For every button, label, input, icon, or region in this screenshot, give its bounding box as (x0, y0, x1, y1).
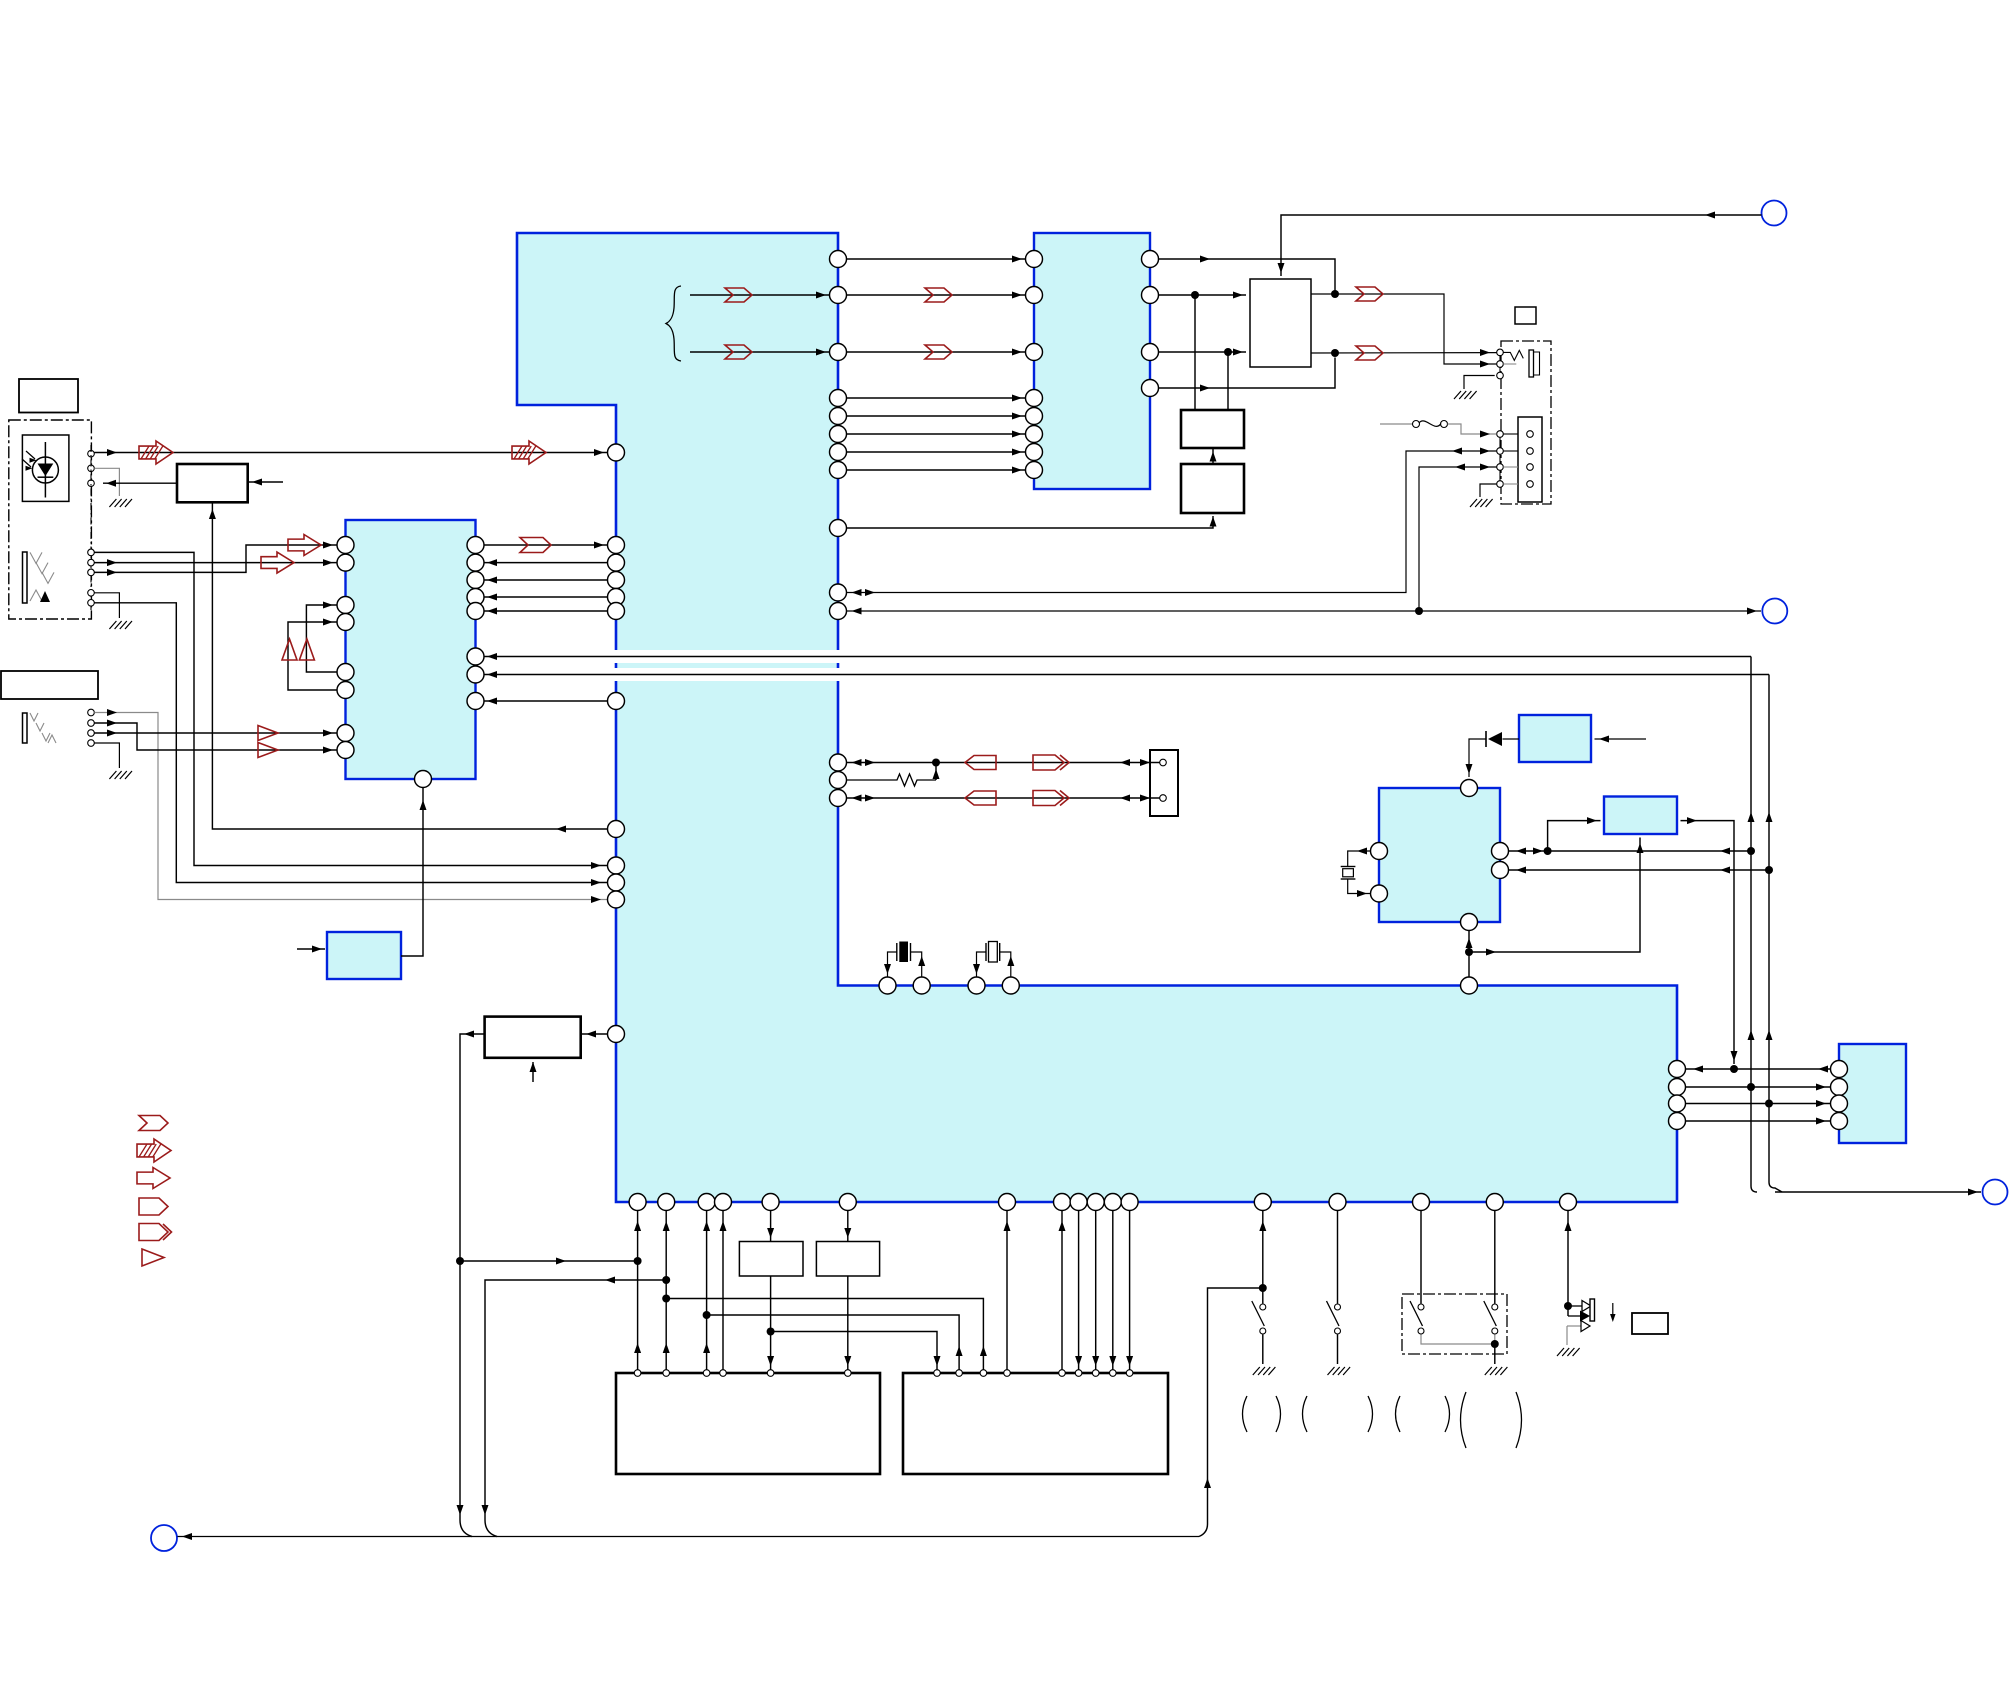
jack JK1 pin 5 (88, 600, 95, 607)
pin U2-R4 (1142, 380, 1159, 397)
connector CN2 outer pin 3 (1497, 464, 1504, 471)
box label L1 (19, 379, 78, 413)
pin U1-B14 (1329, 1194, 1346, 1211)
wire A5 bottom stub (532, 1062, 534, 1082)
junction reg feed 2 (1224, 348, 1232, 356)
pin U1-L10 (608, 874, 625, 891)
wire U2-R4 to mux out2 (1159, 358, 1336, 389)
jack JK1 contacts (30, 552, 42, 563)
junction U4R1/U6 (1544, 847, 1552, 855)
jack JK2 pin 1 (88, 709, 95, 716)
pin DSP2-8 (1110, 1370, 1117, 1377)
wire JK2-4 to ground (94, 743, 119, 768)
LED DL1 cathode bar (1590, 1299, 1595, 1321)
wire bus U3-R7 long (crosses U1) (484, 674, 1769, 676)
junction v1-reset (634, 1257, 642, 1265)
wire U5 input stub (1595, 738, 1647, 740)
pin U3-L6 (337, 682, 354, 699)
legend arrow pentagon chevron (139, 1224, 168, 1241)
pin DSP1-5 (767, 1370, 774, 1377)
pin U1-B5 (762, 1194, 779, 1211)
wire node J1 to mux select (1281, 215, 1762, 276)
battery parentheses pair 2 (1303, 1396, 1308, 1432)
pin U2-L3 (1026, 344, 1043, 361)
wire SW common to ground (1494, 1344, 1496, 1364)
brace left of U2 wires (666, 286, 681, 361)
pin U1-E2 (1669, 1079, 1686, 1096)
wire U1 to U2 row2 (847, 294, 1026, 296)
wire preamp input stub (248, 481, 283, 483)
pin U2-L6 (1026, 426, 1043, 443)
wire U1 to U2 data y434 (847, 433, 1026, 435)
pin U1-L11 (608, 891, 625, 908)
switch SW3 contact b (1418, 1328, 1424, 1334)
wire bus U3-R6 long (crosses U1) (484, 656, 1751, 658)
wire U1 to U3 sck (484, 610, 608, 612)
wire U2-R1 to mux out1 (1159, 259, 1336, 291)
wire U4-R1 net (1509, 850, 1752, 852)
pin U1-B4 (715, 1194, 732, 1211)
wire v9 U1-B9 to DSP2 (1078, 1211, 1080, 1370)
pin U1-T3 (968, 977, 985, 994)
pin U4 top (1461, 780, 1478, 797)
pin U3-R6 (467, 648, 484, 665)
pin DSP2-3 (980, 1370, 987, 1377)
ground SW2 (1328, 1367, 1351, 1375)
junction CN2-3 / J2 (1415, 607, 1423, 615)
pin U1-L12 (608, 1026, 625, 1043)
pin DSP1-1 (634, 1370, 641, 1377)
pin U1-B13 (1254, 1194, 1271, 1211)
box display DSP1 (616, 1373, 880, 1474)
remote sensor body (22, 435, 69, 501)
battery parentheses pair 4 (1461, 1392, 1467, 1448)
wire U1 to U2 row3 (847, 351, 1026, 353)
pin U1-L4 (608, 572, 625, 589)
wire CN2 pin3 to U1 and J2 (847, 467, 1497, 611)
pin U4-R1 (1492, 843, 1509, 860)
pin U3-R7 (467, 666, 484, 683)
pin U2-L7 (1026, 444, 1043, 461)
wire power rail 1 (1686, 1068, 1831, 1070)
jack JK3 column line b (1499, 437, 1501, 448)
wire bottom rail to J4 (178, 1536, 1200, 1538)
wire v1 U1-B1 to DSP1 (637, 1211, 639, 1370)
signal arrow loop triangle 2 (299, 639, 314, 660)
signal arrow chevron headphone L (1356, 346, 1383, 360)
pin U1-R12 (830, 754, 847, 771)
junction bus1-U4 (1747, 847, 1755, 855)
pin U1-R1 (830, 251, 847, 268)
jack JK3 pin 2 (1497, 361, 1504, 368)
legend arrow chevron (139, 1116, 168, 1131)
signal arrow line-in R (261, 552, 294, 573)
switch SW1 contact a (1260, 1304, 1266, 1310)
wire U1 to reg A4 (847, 516, 1214, 528)
jack JK1 tip marker (40, 591, 50, 602)
pin U1-R2 (830, 287, 847, 304)
pin U2-R3 (1142, 344, 1159, 361)
crystal X2 (977, 952, 987, 977)
wire JK1-4 to ground (94, 593, 119, 618)
pin DSP2-2 (956, 1370, 963, 1377)
wire U5 out via diode to U4 (1469, 739, 1486, 777)
wire JK1-5 to U1 (94, 603, 607, 883)
ground sensor (109, 499, 132, 507)
wire power rail 2 (1686, 1086, 1831, 1088)
sensor pin 2 (88, 465, 95, 472)
pin U1-B1 (629, 1194, 646, 1211)
switch SW3 contact a (1418, 1304, 1424, 1310)
pin U1-B7 (999, 1194, 1016, 1211)
wire A6 out down (770, 1276, 772, 1370)
IC U3 audio codec (cyan block left) (346, 520, 476, 779)
wire CN2 pin4 to ground (1480, 484, 1497, 497)
jack JK1 pin 1 (88, 549, 95, 556)
pin U3-R5 (467, 603, 484, 620)
signal arrow loop triangle 1 (282, 639, 297, 660)
junction bus2-pwr (1765, 1100, 1773, 1108)
signal arrow line-in L (288, 535, 321, 556)
wire JK1-2 to U3 in-R (94, 562, 336, 564)
switch block outline (dash-dot) (1402, 1294, 1507, 1354)
signal arrow key1 left pent (965, 756, 996, 770)
node J1 (blue circle top right) (1762, 201, 1787, 226)
pin U3-L1 (337, 537, 354, 554)
LED current arrow (1612, 1303, 1614, 1320)
ground JK1 (109, 621, 132, 629)
box driver A6 (739, 1242, 803, 1277)
IC U6 regulator (small cyan box) (1604, 797, 1677, 835)
pin U3-B1 (415, 771, 432, 788)
pin U1-B6 (839, 1194, 856, 1211)
box reset A5 (485, 1017, 581, 1058)
signal arrow (hatched) remote data 1 (139, 441, 173, 464)
wire U2-R3 to mux in2 (1159, 351, 1247, 353)
switch SW2 lever (1327, 1301, 1340, 1326)
wire v11 U1-B11 to DSP2 (1112, 1211, 1114, 1370)
pin U1-R5 (830, 408, 847, 425)
pin U1-L9 (608, 857, 625, 874)
wire line d to DSP2 (707, 1315, 960, 1370)
legend arrow open (137, 1168, 170, 1189)
diode D2 (1503, 738, 1520, 740)
wire reset to v1 (460, 1260, 638, 1262)
pin U1-R13 (830, 772, 847, 789)
wire JK1-1 to U1 (detect) (94, 552, 607, 865)
box mux A2 (1250, 279, 1311, 367)
jack JK1 pin 2 (88, 559, 95, 566)
wire feedback y1280 (485, 1280, 666, 1537)
wire power rail 3 (1686, 1103, 1831, 1105)
legend arrow pentagon (139, 1198, 168, 1215)
pin U2-L5 (1026, 408, 1043, 425)
jack JK2 pin 4 (88, 740, 95, 747)
wire junction up to U6 in (1548, 821, 1601, 851)
junction mux out2 (1331, 349, 1339, 357)
pin U3-L3 (337, 597, 354, 614)
connector CN3 pin 1 (1160, 759, 1167, 766)
node J3 (blue circle bottom right) (1983, 1180, 2008, 1205)
pin U1-B11 (1104, 1194, 1121, 1211)
pin U4-L2 (1371, 885, 1388, 902)
switch SW4 contact b (1492, 1328, 1498, 1334)
pin U1-T5 (1461, 977, 1478, 994)
pin U3-L2 (337, 554, 354, 571)
node J2 (blue circle middle right) (1762, 599, 1787, 624)
wire U1 to U2 data y398 (847, 397, 1026, 399)
wire U1-B14 to SW2 (1337, 1211, 1339, 1304)
wire mux out2 to jack (1311, 352, 1497, 354)
photodiode D1 (32, 457, 58, 483)
pin U1-E3 (1669, 1095, 1686, 1112)
wire v10 U1-B10 to DSP2 (1095, 1211, 1097, 1370)
jack JK3 sleeve bar (1529, 350, 1534, 377)
IC U8 reset IC (small cyan box) (327, 932, 401, 979)
connector CN2 pin 2 (1527, 448, 1534, 455)
box driver A7 (816, 1242, 879, 1277)
connector CN2 pin 4 (1527, 481, 1534, 488)
switch SW3 lever (1410, 1301, 1423, 1326)
signal arrow chevron row2 b (925, 288, 952, 302)
wire JK2-1 to U1 (detect) (94, 713, 607, 900)
wire brace to U1 row2 (690, 294, 830, 296)
pin U3-R3 (467, 572, 484, 589)
pin U3-L8 (337, 742, 354, 759)
remote sensor enclosure (dash-dot outline) (9, 420, 92, 619)
wire sensor pin2 to ground (94, 468, 119, 496)
sensor pin 3 (88, 480, 95, 487)
pin U7-L1 (1831, 1061, 1848, 1078)
connector CN3 body (1150, 750, 1178, 816)
resistor R1 (847, 774, 937, 786)
junction U6-pwr (1730, 1065, 1738, 1073)
jack JK1 pin 4 (88, 590, 95, 597)
pin U1-L3 (608, 554, 625, 571)
wire U1 to preamp (control) (212, 502, 607, 829)
ground LED (1557, 1348, 1580, 1356)
box preamp A1 (177, 464, 248, 502)
jack JK3 contacts (1503, 350, 1523, 360)
junction bus2-U4 (1765, 866, 1773, 874)
fuse F1 (1380, 423, 1412, 425)
wire U1 to U2 data y470 (847, 469, 1026, 471)
wire U1 to U3 bck (484, 562, 608, 564)
connector CN2 body (1518, 417, 1542, 502)
pin DSP2-9 (1126, 1370, 1133, 1377)
pin U1-R9 (830, 520, 847, 537)
pin DSP2-6 (1075, 1370, 1082, 1377)
switch SW4 contact a (1492, 1304, 1498, 1310)
switch SW2 contact a (1335, 1304, 1341, 1310)
pin U1-L5 (608, 589, 625, 606)
wire U1 to U2 data y452 (847, 451, 1026, 453)
pin U1-R6 (830, 426, 847, 443)
pin U1-E4 (1669, 1113, 1686, 1130)
wire U1-B13 to SW1 (1262, 1211, 1264, 1304)
pin DSP1-3 (703, 1370, 710, 1377)
switch SW4 lever (1484, 1301, 1497, 1326)
wire reset A5 out (460, 1034, 485, 1537)
wire bus vertical right 1 (1751, 657, 1757, 1193)
wire U1 to U3 lrck (484, 579, 608, 581)
jack JK3 pin 1 (1497, 349, 1504, 356)
jack JK1 pin 3 (88, 569, 95, 576)
pin U1-B17 (1560, 1194, 1577, 1211)
wire v6 U1-B6 to driver A7 (847, 1211, 849, 1242)
wire brace to U1 row3 (690, 351, 830, 353)
pin U1-B2 (658, 1194, 675, 1211)
wire U3 to U1 audio data (484, 544, 608, 546)
junction SW common (1491, 1340, 1499, 1348)
node J4 (blue circle bottom left) (151, 1525, 177, 1551)
wire reg feed 2 vertical (1227, 352, 1229, 410)
switch SW1 contact b (1260, 1328, 1266, 1334)
jack JK2 pin 2 (88, 720, 95, 727)
signal arrow key1 right pent (1033, 755, 1064, 770)
connector CN2 pin 3 (1527, 464, 1534, 471)
signal arrow phones 1 (258, 726, 278, 741)
box label L3 (1515, 307, 1536, 324)
wire CN2 pin2 to U1 (847, 451, 1497, 593)
junction reg feed 1 (1191, 291, 1199, 299)
pin DSP1-2 (663, 1370, 670, 1377)
wire power rail 4 (1686, 1120, 1831, 1122)
jack JK2 contacts (30, 713, 38, 721)
pin DSP2-1 (934, 1370, 941, 1377)
pin U1-R8 (830, 462, 847, 479)
wire v4 U1-B4 to DSP1 (722, 1211, 724, 1370)
wire U4-R2 net (1509, 869, 1770, 871)
wire U4 bottom to U1 top pin (1468, 931, 1470, 978)
jack JK2 pin 3 (88, 730, 95, 737)
wire v5 U1-B5 to driver A6 (770, 1211, 772, 1242)
wire SW2 to ground (1337, 1335, 1339, 1365)
pin U3-L5 (337, 664, 354, 681)
wire U3 bottom from reset (401, 788, 423, 957)
wire reg A3 to A4 link (1212, 448, 1214, 464)
wire LED lower to ground (1567, 1325, 1581, 1327)
pin U1-B16 (1486, 1194, 1503, 1211)
wire v3 U1-B3 to DSP1 (706, 1211, 708, 1370)
junction v2-c (662, 1295, 670, 1303)
pin U1-B9 (1070, 1194, 1087, 1211)
legend arrow triangle (142, 1249, 164, 1266)
pin U4-R2 (1492, 862, 1509, 879)
connector CN2 outer pin 1 (1497, 431, 1504, 438)
pin U1-B12 (1121, 1194, 1138, 1211)
pin U7-L4 (1831, 1113, 1848, 1130)
signal arrow phones 2 (258, 743, 278, 758)
junction mux out1 (1331, 290, 1339, 298)
wire JK2-3 to U3 (94, 732, 336, 734)
sensor pin 1 (88, 450, 95, 457)
wire U1-B16 to SW4 (1494, 1211, 1496, 1304)
pin U1-E1 (1669, 1061, 1686, 1078)
pin U1-R14 (830, 790, 847, 807)
wire U1 to reset box A5 (581, 1033, 608, 1035)
pin DSP1-6 (845, 1370, 852, 1377)
op-amp U1 system-controller IC (large cyan block) (517, 233, 1677, 1202)
junction key row1 (932, 759, 940, 767)
box label L2 (1, 671, 98, 699)
junction LED (1564, 1302, 1572, 1310)
pin U7-L2 (1831, 1079, 1848, 1096)
wire JK2-2 to U3 (94, 723, 336, 750)
pin U1-R4 (830, 390, 847, 407)
wire v2 U1-B2 to DSP1 (665, 1211, 667, 1370)
wire CN2 outer links (1503, 433, 1518, 435)
IC U5 regulator (small cyan box) (1519, 715, 1591, 762)
wire bottom rail riser (1199, 1288, 1263, 1537)
junction U4 supply (1465, 948, 1473, 956)
pin U1-B3 (698, 1194, 715, 1211)
wire U1 key row1 to CN3 (847, 762, 1160, 764)
pin U1-R11 (830, 603, 847, 620)
pin U1-T2 (913, 977, 930, 994)
junction v5-e (767, 1328, 775, 1336)
pin U2-L1 (1026, 251, 1043, 268)
ground JK3 (1454, 391, 1477, 399)
signal arrow key2 left pent (965, 791, 996, 805)
junction reset net (456, 1257, 464, 1265)
box regulator A4 (1181, 464, 1244, 513)
pin U2-L2 (1026, 287, 1043, 304)
pin U1-L6 (608, 603, 625, 620)
headphone jack JK3 outline (dash-dot) (1501, 341, 1551, 504)
wire SW1 to ground (1262, 1335, 1264, 1365)
wire v12 U1-B12 to DSP2 (1129, 1211, 1131, 1370)
wire junction to node J2 (1419, 610, 1761, 612)
signal arrow chevron row3 b (925, 345, 952, 359)
pin U1-L8 (608, 821, 625, 838)
pin U2-L4 (1026, 390, 1043, 407)
wire U6 out to power rail (1681, 821, 1735, 1064)
wire U3 loop 1 (mute L) (306, 605, 337, 672)
LED DL1 anode arrows (1568, 1305, 1582, 1307)
wire U1 to U3 data (484, 596, 608, 598)
wire U1 key row2 to CN3 (847, 797, 1160, 799)
pin U3-R1 (467, 537, 484, 554)
wire JK3 pin3 to ground (1464, 376, 1495, 390)
box label L4 (1632, 1313, 1668, 1334)
signal arrow key2 right pent (1033, 791, 1064, 806)
signal arrow chevron U3-U1 (520, 538, 551, 553)
IC U2 DSP (cyan block top) (1034, 233, 1150, 489)
connector CN2 outer pin 2 (1497, 448, 1504, 455)
sensor connector column (dashed) (90, 445, 92, 610)
pin U2-L8 (1026, 462, 1043, 479)
pin U4 bottom (1461, 914, 1478, 931)
signal arrow chevron headphone R (1356, 287, 1383, 301)
pin DSP2-5 (1059, 1370, 1066, 1377)
jack JK3 pin 3 (1497, 372, 1504, 379)
box display DSP2 (903, 1373, 1168, 1474)
pin U1-L2 (608, 537, 625, 554)
pin U1-B8 (1054, 1194, 1071, 1211)
wire U1-B17 to LED (1567, 1211, 1569, 1317)
wire U2-R2 to mux in1 (1159, 294, 1247, 296)
wire line c to DSP2 (666, 1299, 983, 1370)
wire v7 U1-B7 to DSP2 (1006, 1211, 1008, 1370)
ground JK2 (109, 771, 132, 779)
pin U3-R8 (467, 693, 484, 710)
wire U3 loop 2 (mute R) (288, 622, 337, 690)
pin U1-B15 (1413, 1194, 1430, 1211)
ground CN2 (1470, 499, 1493, 507)
wire sensor out to U1 (94, 452, 607, 454)
pin U3-R2 (467, 554, 484, 571)
